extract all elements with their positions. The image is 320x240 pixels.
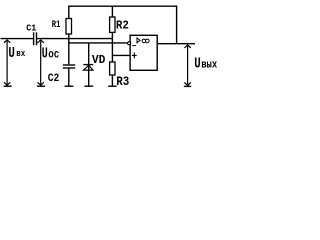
- svg-text:VD: VD: [92, 53, 106, 67]
- svg-text:U: U: [8, 46, 15, 62]
- svg-text:U: U: [194, 56, 201, 73]
- svg-text:R2: R2: [116, 18, 129, 32]
- svg-text:C2: C2: [48, 73, 60, 85]
- svg-text:R1: R1: [52, 20, 61, 31]
- svg-text:ос: ос: [48, 47, 59, 61]
- svg-text:вых: вых: [201, 60, 217, 72]
- svg-text:R3: R3: [116, 74, 129, 89]
- svg-text:U: U: [42, 46, 48, 62]
- svg-text:вх: вх: [16, 48, 25, 59]
- svg-text:C1: C1: [26, 23, 36, 34]
